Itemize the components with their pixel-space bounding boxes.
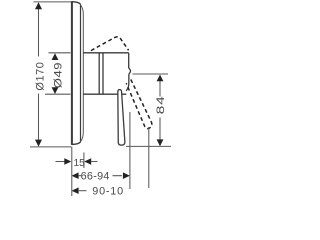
dim 90-108: line [78,190,87,192]
dim 84: top arrow [157,75,164,82]
svg-text:15: 15 [74,158,86,169]
dim 66-94: line [78,175,122,177]
dim Ø170: bottom extension line [30,146,72,148]
dim 66-94: right arrow (pointing right) [123,172,130,179]
sleeve top edge [83,52,129,54]
dim Ø49: top arrow [52,53,59,60]
svg-text:84: 84 [154,95,166,114]
extension line below plate rim (15 right) [83,153,85,169]
dim 66-94: left arrow (pointing left) [72,172,79,179]
dim Ø170: top extension line [34,1,72,3]
svg-text:66-94: 66-94 [81,170,110,182]
svg-text:90-10: 90-10 [92,185,124,197]
handle hub body [103,53,129,94]
dim 84: dimension line [159,80,161,140]
svg-text:Ø49: Ø49 [51,62,64,88]
sleeve bottom edge [83,93,126,95]
plate back inner line [80,4,82,142]
lever (down position) [118,90,125,146]
extension line 90-108 right [148,127,150,188]
dim 90-108: left arrow (pointing left) [72,187,79,194]
svg-text:Ø170: Ø170 [35,62,47,91]
dim 84: bottom extension line [126,145,171,147]
handle neck right side [126,74,129,91]
dim Ø170: bottom arrow [35,140,42,147]
plate back outer rim [81,5,83,141]
dim Ø49: top extension line [49,52,71,54]
plate bottom edge [72,142,81,145]
dim 15: left arrow (pointing right) [64,158,71,165]
dim Ø170: dimension line [38,8,40,140]
plate top edge [72,2,81,4]
dim 15: right tail [91,161,98,163]
sleeve right edge [98,53,100,94]
dashed lever (rotated position) [126,80,152,129]
dim 15: left tail [56,161,65,163]
dim 15: right arrow (pointing left) [84,158,91,165]
extension line 66-94 right [129,112,131,189]
dim Ø49: bottom arrow [52,87,59,94]
dim 84: top extension line [133,73,169,75]
dim Ø49: bottom extension line [45,93,71,95]
escutcheon plate front face [71,1,73,145]
pivot bump [129,68,131,74]
dim Ø170: top arrow [35,2,42,9]
dashed handle outline (rotated position) [91,37,129,51]
dim 84: bottom arrow [157,139,164,146]
extension line below plate front [71,147,73,196]
